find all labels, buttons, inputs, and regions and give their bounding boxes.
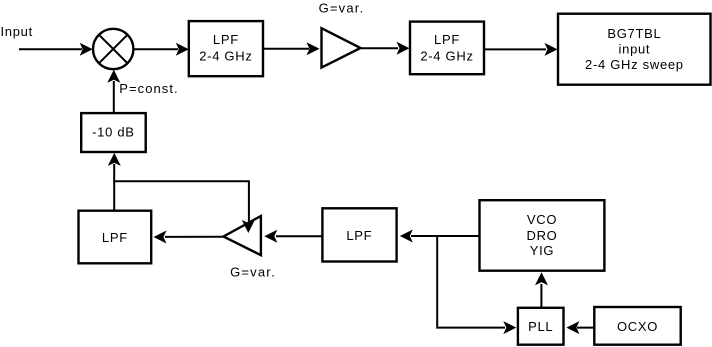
svg-text:PLL: PLL bbox=[528, 319, 553, 334]
svg-text:-10 dB: -10 dB bbox=[92, 125, 135, 140]
svg-text:LPF: LPF bbox=[213, 32, 239, 47]
svg-text:P=const.: P=const. bbox=[119, 81, 178, 96]
svg-text:G=var.: G=var. bbox=[319, 0, 365, 15]
svg-text:BG7TBL: BG7TBL bbox=[607, 26, 661, 41]
svg-text:LPF: LPF bbox=[346, 228, 372, 243]
svg-text:LPF: LPF bbox=[102, 230, 128, 245]
svg-text:LPF: LPF bbox=[434, 32, 460, 47]
svg-text:input: input bbox=[619, 42, 651, 57]
svg-text:2-4 GHz: 2-4 GHz bbox=[199, 49, 252, 64]
svg-text:VCO: VCO bbox=[527, 212, 557, 227]
svg-text:OCXO: OCXO bbox=[617, 319, 658, 334]
svg-text:2-4 GHz sweep: 2-4 GHz sweep bbox=[585, 57, 684, 72]
svg-text:G=var.: G=var. bbox=[230, 265, 276, 280]
svg-text:2-4 GHz: 2-4 GHz bbox=[420, 49, 473, 64]
svg-text:YIG: YIG bbox=[530, 243, 555, 258]
svg-text:DRO: DRO bbox=[527, 228, 558, 243]
svg-text:Input: Input bbox=[1, 24, 33, 39]
